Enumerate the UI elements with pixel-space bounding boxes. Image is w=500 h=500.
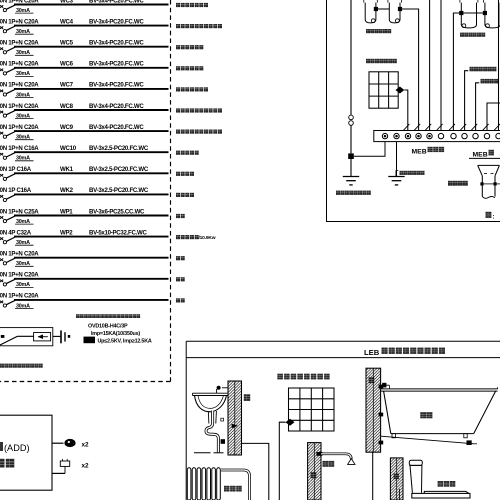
pipe hot water pipe 2 [483, 0, 500, 28]
small junction square [221, 418, 224, 421]
label wall char shower [311, 472, 317, 478]
wire to hot water pipes [453, 13, 482, 125]
pipe AC pipe 2 [388, 0, 402, 23]
radiator coil [187, 468, 220, 500]
label load label row 11 [176, 214, 185, 218]
wire grid to MEB bar [404, 90, 408, 125]
MEB terminal board [374, 131, 500, 142]
label note under SPD [0, 364, 43, 368]
label ground note5 label [400, 171, 425, 175]
lightning down conductor [348, 0, 354, 177]
label electronic info equipment label [470, 67, 497, 72]
LEB arrow into wall [232, 424, 238, 428]
shower pipe [321, 454, 351, 460]
main drain pipe [478, 165, 500, 198]
pipe AC pipe 1 [364, 0, 378, 23]
label load label row 3 [176, 45, 203, 49]
wire WC9 [14, 130, 169, 132]
svg-text:40N 1P+N C20A: 40N 1P+N C20A [0, 293, 39, 300]
label wall char bathtub [369, 377, 375, 383]
label building metal structure label [366, 59, 397, 63]
pedestal base [194, 452, 224, 454]
svg-text:40N 1P+N C20A: 40N 1P+N C20A [0, 18, 39, 25]
svg-text:WP1: WP1 [60, 208, 73, 215]
svg-text:MEB: MEB [412, 148, 427, 155]
svg-text:40N 1P+N C20A: 40N 1P+N C20A [0, 40, 39, 47]
label load label row 10 [176, 193, 194, 197]
RCD 30mA row 5 [15, 92, 34, 98]
washbasin pedestal [208, 411, 216, 424]
washbasin [193, 386, 229, 412]
svg-text:BV-3x2.5-PC20.FC.WC: BV-3x2.5-PC20.FC.WC [89, 145, 149, 152]
breaker QF11 WP1 [0, 208, 39, 222]
svg-text:WK2: WK2 [60, 187, 74, 194]
wire WP1 [14, 215, 169, 217]
svg-text:x2: x2 [82, 441, 90, 448]
label load label row 5 [176, 87, 208, 91]
bathtub drain slope [381, 436, 477, 445]
label load label row 8 [176, 151, 199, 155]
terminal stub 1 [52, 439, 89, 448]
label wall char toilet [394, 474, 399, 480]
svg-text:WC4: WC4 [60, 18, 74, 25]
wall shower wall [308, 443, 321, 500]
wire WK2 [14, 193, 169, 195]
svg-text:BV-3x2.5-PC20.FC.WC: BV-3x2.5-PC20.FC.WC [89, 166, 149, 173]
breaker QF6 WC8 [0, 103, 39, 117]
svg-text:BV-3x2.5-PC20.FC.WC: BV-3x2.5-PC20.FC.WC [89, 187, 149, 194]
ground (lightning) [343, 177, 359, 185]
SPD connector symbol [53, 330, 70, 343]
clamp shower wall [316, 452, 322, 456]
wire power incoming [476, 83, 480, 125]
label bathtub label [420, 412, 432, 418]
radiator pipe loop [221, 470, 250, 500]
RCD 30mA row 14 [15, 282, 34, 288]
breaker QF1 WC3 [0, 0, 39, 12]
svg-text:40N 1P C16A: 40N 1P C16A [0, 187, 32, 194]
label floor rebar grid label [277, 374, 329, 380]
label line char [489, 150, 494, 156]
svg-text:x2: x2 [82, 462, 90, 469]
svg-text:WC6: WC6 [60, 61, 74, 68]
svg-text:40N 1P+N C20A: 40N 1P+N C20A [0, 61, 39, 68]
terminal stub 2 [52, 459, 89, 474]
shower head [348, 459, 355, 465]
toilet [409, 460, 470, 498]
label load label row 6 [176, 108, 222, 112]
RCD 30mA row 12 [15, 240, 34, 246]
breaker QF9 WK1 [0, 166, 32, 180]
label SPD note line1 [76, 314, 140, 318]
svg-text:WC10: WC10 [60, 145, 77, 152]
svg-text:40N 1P+N C20A: 40N 1P+N C20A [0, 251, 39, 258]
svg-text:BV-3x4-PC20.FC.WC: BV-3x4-PC20.FC.WC [89, 124, 144, 131]
wire WK1 [14, 172, 169, 174]
connection slashes above bar [403, 124, 500, 131]
breaker QF10 WK2 [0, 187, 32, 201]
svg-text:MEB: MEB [473, 151, 488, 158]
wire AC pipe1 to pipe2 [378, 8, 389, 10]
label load label row 4 [176, 66, 203, 70]
RCD 30mA row 11 [15, 219, 34, 225]
label power incoming label [481, 79, 499, 84]
label load label row 7 [176, 130, 222, 134]
svg-text:OVD10B-H4C/3P: OVD10B-H4C/3P [88, 323, 128, 329]
rebar grid [289, 388, 335, 431]
label text protector [0, 459, 14, 468]
breaker QF12 WP2 [0, 229, 32, 243]
breaker QF4 WC6 [0, 61, 39, 75]
breaker QF15 spare [0, 293, 39, 307]
svg-text:T1: T1 [86, 338, 92, 344]
wire electronic info equipment [465, 71, 469, 125]
RCD 30mA row 15 [15, 303, 34, 309]
toilet wall inner line [398, 489, 400, 500]
surge arrester box (ADD) [0, 415, 52, 490]
wire spare13 [14, 278, 169, 280]
svg-text:BV-3x4-PC20.FC.WC: BV-3x4-PC20.FC.WC [89, 18, 144, 25]
RCD 30mA row 7 [15, 135, 34, 141]
wire WC4 [14, 25, 169, 27]
label load label row 13 [176, 256, 185, 260]
svg-text:40N 1P C16A: 40N 1P C16A [0, 166, 32, 173]
label load label row 2 [176, 24, 222, 28]
label main drain pipe label [448, 181, 468, 186]
label AC pipe label [366, 29, 391, 33]
RCD 30mA row 3 [15, 50, 34, 56]
wire far right [498, 0, 500, 125]
bathtub faucet [381, 383, 390, 389]
label LEB title chars [382, 348, 446, 354]
RCD 30mA row 8 [15, 156, 34, 162]
LEB diagram frame and title bar [186, 341, 500, 500]
wire WC7 [14, 88, 169, 90]
label load label row 12 (AC outdoor unit) [176, 235, 199, 239]
label shower label [323, 461, 335, 467]
clamps bathtub wall [379, 385, 384, 445]
svg-text:BV-3x4-PC20.FC.WC: BV-3x4-PC20.FC.WC [89, 82, 144, 89]
wire AC pipes to MEB bar [402, 9, 419, 125]
wall bathtub wall [366, 368, 381, 452]
breaker QF13 spare [0, 251, 39, 265]
svg-text:BV-5x10-PC32.FC.WC: BV-5x10-PC32.FC.WC [89, 229, 147, 236]
breaker QF5 WC7 [0, 82, 39, 96]
breaker QF7 WC9 [0, 124, 39, 138]
wire from top 1 [429, 0, 431, 125]
svg-text:40N 1P+N C20A: 40N 1P+N C20A [0, 82, 39, 89]
connector diamond on grid [396, 87, 405, 94]
MEB diagram border [327, 0, 500, 222]
svg-text:WC9: WC9 [60, 124, 74, 131]
svg-text:40N 4P C32A: 40N 4P C32A [0, 229, 32, 236]
breaker QF3 WC5 [0, 40, 39, 54]
wire WC8 [14, 109, 169, 111]
distribution panel dashed border [0, 0, 171, 382]
label hot water pipe label [460, 33, 485, 37]
svg-text:WK1: WK1 [60, 166, 74, 173]
wire spare14 [14, 299, 169, 301]
wire spare12 [14, 257, 169, 259]
wire WC10 [14, 151, 169, 153]
RCD 30mA row 6 [15, 113, 34, 119]
wire WC3 [14, 4, 169, 6]
wire WC5 [14, 46, 169, 48]
breaker QF8 WC10 [0, 145, 39, 159]
svg-text:WC5: WC5 [60, 40, 74, 47]
RCD 30mA row 2 [15, 29, 34, 35]
label zhu [486, 212, 492, 218]
svg-text:40N 1P+N C16A: 40N 1P+N C16A [0, 145, 39, 152]
RCD 30mA row 1 [15, 8, 34, 14]
svg-text::: : [493, 213, 495, 220]
label terminal board chars [428, 147, 445, 152]
label load label row 9 [176, 172, 194, 176]
svg-text:40N 1P+N C20A: 40N 1P+N C20A [0, 124, 39, 131]
SPD class T1 box [84, 337, 96, 344]
wire WC6 [14, 67, 169, 69]
svg-text:BV-3x4-PC20.FC.WC: BV-3x4-PC20.FC.WC [89, 61, 144, 68]
wire basin wall to bottom [242, 443, 269, 500]
breaker QF14 spare [0, 272, 39, 286]
connector diamond on rebar grid [286, 419, 295, 426]
svg-text:(ADD): (ADD) [4, 443, 30, 453]
wall washbasin wall [228, 381, 242, 455]
wire from top 2 [440, 0, 442, 125]
MEB line label [469, 151, 500, 158]
wall toilet wall [390, 458, 403, 500]
svg-text:Imp=15KA(10/350us): Imp=15KA(10/350us) [91, 331, 140, 337]
svg-text:BV-3x4-PC20.FC.WC: BV-3x4-PC20.FC.WC [89, 40, 144, 47]
wire terminal1 to conductor [354, 142, 385, 157]
washbasin drain trap [206, 411, 218, 453]
label toilet label [438, 481, 456, 487]
bathtub [381, 387, 498, 438]
svg-text:BV-3x6-PC25.CC.WC: BV-3x6-PC25.CC.WC [89, 208, 145, 215]
svg-text:BV-3x4-PC20.FC.WC: BV-3x4-PC20.FC.WC [89, 103, 144, 110]
surge protector SPD symbol [0, 328, 53, 346]
label load label row 15 [176, 298, 185, 302]
breaker QF2 WC4 [0, 18, 39, 32]
building metal structure grid [369, 72, 398, 108]
label wall char 1 [244, 394, 250, 401]
svg-text:/10.9Kw: /10.9Kw [199, 235, 216, 241]
wire rebar grid down [279, 422, 285, 500]
RCD 30mA row 4 [15, 71, 34, 77]
text (ADD) [0, 442, 30, 453]
svg-text:40N 1P+N C20A: 40N 1P+N C20A [0, 272, 39, 279]
label load label row 14 [176, 277, 185, 281]
svg-text:40N 1P+N C25A: 40N 1P+N C25A [0, 208, 39, 215]
ground (note5) [388, 142, 404, 185]
label radiator label [224, 486, 242, 492]
wire WP2 [14, 236, 169, 238]
svg-text:WC8: WC8 [60, 103, 74, 110]
wire bathtub wall down [372, 452, 374, 500]
wire right box [487, 103, 500, 125]
svg-text:LEB: LEB [364, 348, 380, 357]
svg-text:Up≤2.5KV, Imp≥12.5KA: Up≤2.5KV, Imp≥12.5KA [98, 338, 152, 344]
label lightning ground label [336, 191, 371, 195]
pipe hot water pipe 1 [459, 0, 478, 28]
clamp on drain pipe [221, 439, 225, 444]
svg-text:40N 1P+N C20A: 40N 1P+N C20A [0, 103, 39, 110]
label load label row 1 [176, 3, 208, 7]
RCD 30mA row 13 [15, 261, 34, 267]
svg-text:WC7: WC7 [60, 82, 74, 89]
svg-text:WP2: WP2 [60, 229, 73, 236]
